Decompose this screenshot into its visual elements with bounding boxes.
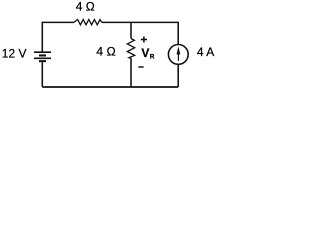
svg-text:4 Ω: 4 Ω <box>96 45 115 59</box>
plus sign of VR polarity <box>141 39 147 41</box>
svg-text:4 A: 4 A <box>197 45 214 59</box>
wire middle vertical upper lead <box>130 22 132 38</box>
wire top-right segment <box>102 21 178 23</box>
battery V1 plate long bottom <box>34 57 51 59</box>
minus sign of VR polarity <box>138 66 143 68</box>
svg-text:R: R <box>150 53 155 60</box>
wire right vertical upper (current source top lead) <box>177 22 179 45</box>
wire bottom <box>42 86 178 88</box>
current source I1 arrow <box>177 52 179 61</box>
resistor R top 4-ohm zigzag <box>74 20 102 25</box>
battery V1 plate long top <box>34 51 51 53</box>
battery V1 plate short thick 1 <box>39 54 46 56</box>
current source I1 circle <box>168 45 188 65</box>
svg-text:12 V: 12 V <box>2 47 27 61</box>
wire left vertical upper (battery top lead) <box>41 22 43 52</box>
battery V1 plate short thick 2 <box>39 60 46 62</box>
wire top-left segment <box>42 21 74 23</box>
wire left vertical lower (battery bottom lead) <box>41 62 43 87</box>
wire middle vertical lower lead <box>130 58 132 87</box>
svg-text:V: V <box>141 46 149 60</box>
wire right vertical lower (current source bottom lead) <box>177 64 179 87</box>
svg-text:4 Ω: 4 Ω <box>76 0 95 14</box>
resistor R middle vertical zigzag <box>127 39 134 59</box>
